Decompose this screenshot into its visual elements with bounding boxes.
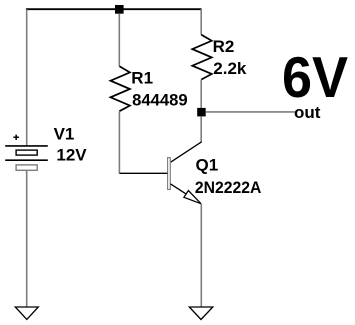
svg-text:12V: 12V	[56, 146, 87, 165]
wire base (R1 bottom to Q1 base)	[119, 172, 167, 174]
wire R2 top vertical	[200, 9, 202, 34]
svg-text:R2: R2	[213, 37, 235, 56]
battery V1 cell box 1	[16, 150, 37, 155]
ground left	[15, 307, 38, 319]
battery V1 plus sign	[13, 135, 19, 140]
svg-text:R1: R1	[131, 69, 153, 88]
svg-text:6V: 6V	[282, 45, 348, 109]
wire R1 bottom vertical	[118, 111, 120, 173]
svg-text:844489: 844489	[132, 91, 188, 110]
ground right	[189, 307, 213, 320]
battery V1 bottom plate	[5, 159, 48, 161]
wire V1 minus down to ground	[26, 170, 28, 307]
wire emitter down to ground	[200, 204, 202, 307]
svg-text:Q1: Q1	[196, 155, 219, 174]
battery V1 cell box 2	[16, 165, 37, 170]
wire junction down to R1 top	[118, 14, 120, 67]
transistor Q1 emitter lead	[170, 184, 201, 204]
wire left vertical (top rail to V1 plus plate)	[26, 9, 28, 145]
resistor R2 (zigzag)	[192, 35, 211, 80]
wire out node down to Q1 collector	[200, 116, 202, 142]
node junction top (square)	[115, 5, 124, 14]
transistor Q1 collector lead	[170, 142, 201, 163]
svg-text:2.2k: 2.2k	[213, 59, 247, 78]
svg-text:V1: V1	[54, 124, 75, 143]
wire out horizontal	[206, 111, 295, 113]
svg-text:2N2222A: 2N2222A	[195, 178, 262, 197]
node junction out (square)	[197, 108, 206, 117]
wire R2 bottom to out node	[200, 80, 202, 112]
transistor Q1 emitter arrowhead (open)	[184, 191, 201, 204]
battery V1 top plate	[5, 145, 48, 147]
wire top horizontal (V1+ to R2 top)	[26, 8, 202, 10]
resistor R1 (zigzag)	[111, 66, 130, 111]
transistor Q1 base bar	[168, 158, 171, 190]
